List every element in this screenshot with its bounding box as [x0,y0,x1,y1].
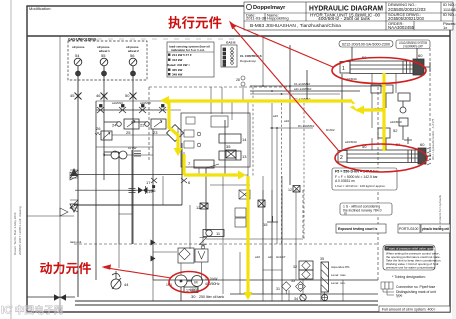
svg-text:33: 33 [291,279,295,283]
svg-text:10 kW: 10 kW [128,146,137,150]
svg-text:PORTU3100: PORTU3100 [399,227,418,231]
svg-text:GAS UNFOLDING: GAS UNFOLDING [68,38,97,42]
svg-text:14: 14 [242,137,247,142]
svg-text:25: 25 [126,130,131,135]
svg-text:1: 1 [342,66,345,72]
svg-text:NAA3002455: NAA3002455 [388,25,415,30]
svg-text:44: 44 [124,282,129,287]
svg-text:15: 15 [263,222,268,227]
svg-text:pressure use for water concent: pressure use for water concentration. [386,266,436,270]
svg-text:13: 13 [242,154,247,159]
svg-text:Level: max.: Level: max. [331,273,347,277]
svg-text:* Tubing designation:: * Tubing designation: [392,275,426,279]
svg-text:22: 22 [140,123,145,128]
svg-text:1x: 1x [443,25,447,30]
svg-text:60: 60 [420,142,425,147]
svg-text:50: 50 [125,93,130,98]
svg-text:a10/M10: a10/M10 [390,120,402,124]
svg-text:325 kW: 325 kW [172,68,183,72]
svg-text:60: 60 [418,53,423,58]
svg-text:ydraulic teaching unit: ydraulic teaching unit [422,227,450,231]
svg-text:H11/17: H11/17 [276,255,286,259]
svg-text:Hoppold/Ing: Hoppold/Ing [267,16,289,21]
svg-text:250 liter oil tank: 250 liter oil tank [199,295,224,299]
svg-text:** start of pressure relief va: ** start of pressure relief valve openin… [386,247,438,251]
svg-text:24: 24 [112,123,117,128]
svg-text:a11: a11 [268,255,273,259]
svg-text:a11 a10/M10: a11 a10/M10 [294,87,312,91]
svg-text:45: 45 [70,93,75,98]
svg-text:the inclined runway 784.0: the inclined runway 784.0 [343,209,382,213]
svg-text:tank unit: tank unit [70,240,82,244]
svg-text:a10: a10 [255,255,260,259]
svg-text:348 kW: 348 kW [172,73,183,77]
svg-text:B-M63 JISHUASHAN , Tianzhushan: B-M63 JISHUASHAN , Tianzhushan/China [250,23,341,29]
svg-text:12: 12 [288,188,292,192]
svg-text:54: 54 [75,53,80,58]
svg-text:Doppelmayr: Doppelmayr [240,59,256,63]
svg-text:A 0.03531 m²: A 0.03531 m² [335,179,356,183]
svg-text:31: 31 [276,287,280,291]
svg-text:GAS B: GAS B [226,41,236,45]
svg-text:a10: a10 [273,114,278,118]
svg-text:34: 34 [294,297,298,301]
svg-text:M: M [194,280,197,285]
svg-text:a10: a10 [284,119,289,123]
svg-text:400/50Hz - 250l oil tank: 400/50Hz - 250l oil tank [318,16,371,21]
svg-text:2011-03-30: 2011-03-30 [246,16,267,21]
svg-text:ID NO.:: ID NO.: [443,12,456,17]
svg-text:12: 12 [196,205,201,210]
svg-text:35: 35 [226,144,231,149]
svg-text:28: 28 [236,78,240,82]
svg-text:Aspendos 8%: Aspendos 8% [331,265,350,269]
svg-text:214 kW 5.77 F: 214 kW 5.77 F [172,53,192,57]
svg-text:indication for 5 or 1 col.: indication for 5 or 1 col. [171,48,205,52]
svg-text:313 kW: 313 kW [172,58,183,62]
svg-text:D1 a10/M10: D1 a10/M10 [298,124,315,128]
svg-text:32: 32 [293,265,297,269]
svg-text:Modification:: Modification: [29,6,51,11]
svg-text:56: 56 [130,53,135,58]
svg-text:Full amount of oil in system:: Full amount of oil in system: 400 l [382,308,436,312]
svg-text:HYDRAULIC DIAGRAM: HYDRAULIC DIAGRAM [309,4,383,13]
svg-text:26: 26 [96,126,101,131]
svg-text:2: 2 [340,155,343,161]
svg-text:6212-200/100-SA-5000-2300: 6212-200/100-SA-5000-2300 [342,43,390,47]
svg-text:oil press.: oil press. [72,45,85,49]
svg-text:52: 52 [393,128,398,133]
svg-text:a10/M10: a10/M10 [345,140,357,144]
svg-text:m: m [344,212,347,216]
svg-text:a10/M10: a10/M10 [140,101,151,105]
svg-text:type: type [396,294,403,298]
svg-text:30: 30 [191,294,196,299]
svg-text:Exposed testing court is: Exposed testing court is [338,227,377,231]
svg-text:1 bar = 10 N/cm² : 100 kg/cm²: 1 bar = 10 N/cm² : 100 kg/cm² approx. [335,184,386,188]
svg-text:K1 a10/M10: K1 a10/M10 [294,82,311,86]
svg-text:2-GURRATE-LRP: 2-GURRATE-LRP [403,44,423,48]
svg-text:a10/M10: a10/M10 [112,101,123,105]
svg-text:Level: min.: Level: min. [331,281,346,285]
svg-text:17: 17 [146,180,151,185]
svg-text:Rated: 342 kW =: Rated: 342 kW = [167,63,190,67]
svg-text:W.H. Hydraulik GmbH . A-6175: W.H. Hydraulik GmbH . A-6175 [431,118,435,160]
svg-text:Connective no. Pipe/Hose: Connective no. Pipe/Hose [396,285,435,289]
svg-text:16: 16 [151,188,156,193]
svg-text:2G5505 10/07 / 20051 conf. dr: 2G5505 10/07 / 20051 conf. drawing [18,206,22,255]
svg-text:55: 55 [101,53,106,58]
svg-text:Doppelmayr: Doppelmayr [253,5,286,11]
svg-text:Drawn: Techn. Bull. 2-May 20: Drawn: Techn. Bull. 2-May 2010 [13,212,17,255]
svg-text:23: 23 [153,130,158,135]
svg-text:46: 46 [96,93,101,98]
svg-text:35: 35 [320,257,324,261]
svg-text:Bul. of plants for Hydraulik: Bul. of plants for Hydraulik [438,194,442,230]
svg-text:D1/D2: D1/D2 [326,128,335,132]
